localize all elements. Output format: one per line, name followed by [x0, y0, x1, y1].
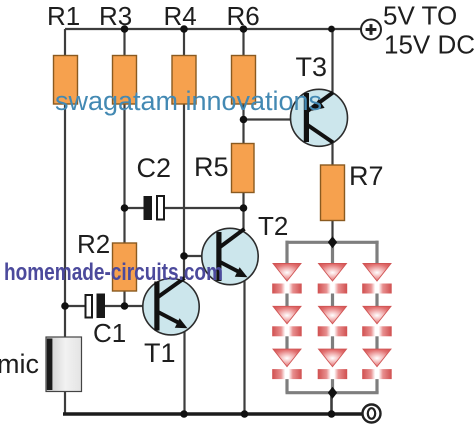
wire R1 bottom to mic: [64, 103, 66, 338]
resistor R1: [54, 56, 78, 105]
wire T3 collector to R7: [331, 141, 333, 165]
resistor R4: [172, 56, 196, 105]
electret mic: [46, 337, 82, 392]
junction node C1 right / T1 base: [121, 302, 129, 310]
transistor T2: [202, 228, 258, 284]
junction node R6 top: [240, 25, 248, 33]
wire C2 right lead to R5 junction: [165, 207, 244, 209]
wire LED ladder top rail: [286, 241, 379, 244]
junction node R4 top: [180, 25, 188, 33]
wire R3 bottom to R2: [123, 103, 125, 244]
wire C1 left lead: [65, 305, 85, 307]
LED D4: [272, 306, 302, 336]
wire R6 bottom to R5 top: [242, 103, 244, 144]
LED D7: [272, 349, 302, 379]
transistor T1: [143, 278, 199, 335]
svg-text:5V TO: 5V TO: [383, 1, 457, 31]
wire ground rail: [63, 412, 362, 416]
LED D1: [272, 264, 302, 294]
svg-text:R3: R3: [99, 1, 132, 31]
LED D2: [318, 264, 348, 294]
LED D5: [318, 306, 348, 336]
svg-text:C2: C2: [137, 153, 172, 183]
resistor R5: [232, 144, 255, 193]
svg-text:R1: R1: [47, 1, 80, 31]
wire T1 emitter to ground: [183, 328, 185, 414]
wire R5 bottom to T2 collector: [242, 193, 244, 230]
wire mic bottom to ground: [64, 391, 66, 414]
transistor T3 (PNP): [291, 89, 348, 146]
wire R6 top stub: [242, 29, 244, 56]
junction node T1 emitter ground: [180, 410, 188, 418]
svg-text:T2: T2: [258, 211, 288, 241]
wire LED array to ground: [330, 392, 333, 414]
junction node T3 top: [328, 26, 335, 33]
positive supply terminal: [361, 20, 381, 40]
wire LED column 3 segments: [375, 241, 378, 393]
svg-text:R2: R2: [77, 229, 110, 259]
wire T3 emitter to rail: [331, 29, 333, 94]
wire R7 bottom to LED rail: [331, 219, 333, 243]
junction node T1 collector / T2 base: [180, 252, 188, 260]
wire T3 base from R6/R5 junction: [244, 118, 305, 120]
wire R4 top stub: [183, 29, 185, 56]
junction node C2 left: [121, 204, 129, 212]
svg-text:R7: R7: [349, 161, 384, 191]
resistor R7: [321, 165, 345, 221]
wire LED column 1 segments: [285, 241, 288, 393]
capacitor C2: [144, 196, 165, 220]
svg-text:T1: T1: [144, 338, 176, 368]
resistor R2: [113, 243, 137, 291]
junction node C1 left: [61, 302, 69, 310]
svg-text:mic: mic: [0, 349, 39, 379]
svg-text:T3: T3: [296, 52, 328, 82]
LED D6: [362, 306, 392, 336]
svg-text:C1: C1: [93, 318, 126, 348]
wire R3 top stub: [123, 29, 125, 56]
wire C2 left lead: [125, 207, 145, 209]
wire R2 bottom to C1 junction: [123, 291, 125, 306]
wire LED ladder bottom rail: [286, 391, 379, 394]
resistor R6: [232, 56, 256, 105]
LED D8: [318, 349, 348, 379]
junction node R3 top: [121, 25, 129, 33]
svg-text:R6: R6: [227, 1, 260, 31]
junction diamond LED top: [328, 236, 337, 248]
wire LED column 2 segments: [331, 242, 334, 392]
LED D3: [362, 264, 392, 294]
wire top supply rail: [65, 28, 361, 30]
capacitor C1: [86, 294, 106, 319]
wire T2 emitter to ground: [243, 279, 245, 414]
junction node R6 bottom / T3 base: [240, 116, 248, 124]
svg-text:swagatam innovations: swagatam innovations: [55, 86, 322, 116]
junction node T2 emitter ground: [241, 410, 249, 418]
wire R1 top stub: [64, 29, 66, 56]
wire C1 right lead to T1 base: [105, 305, 156, 307]
wire R4 bottom to T1 collector: [183, 103, 185, 279]
svg-text:homemade-circuits.com: homemade-circuits.com: [4, 259, 223, 286]
junction node LED ground: [328, 410, 336, 418]
wire T2 base from T1 collector junction: [184, 255, 217, 257]
junction diamond LED bottom: [328, 387, 337, 399]
negative supply terminal: [363, 405, 381, 423]
svg-text:R5: R5: [194, 152, 229, 182]
junction node C2 right / R5 bottom: [240, 204, 248, 212]
resistor R3: [113, 56, 137, 105]
svg-text:R4: R4: [164, 1, 197, 31]
LED D9: [362, 349, 392, 379]
svg-text:15V DC: 15V DC: [384, 30, 474, 60]
